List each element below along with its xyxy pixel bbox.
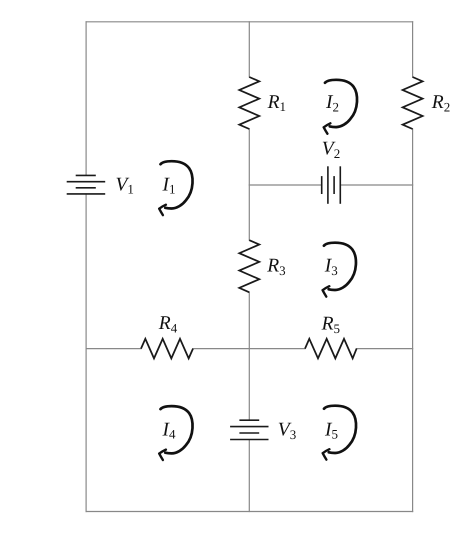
battery V1: [67, 175, 106, 194]
loop arrow I3: [323, 243, 356, 297]
wire middle below V3: [248, 440, 250, 512]
battery V3: [230, 420, 268, 439]
resistor R2: [403, 77, 423, 129]
wire V2 row left: [249, 184, 321, 186]
loop arrow I2: [324, 80, 357, 134]
resistor R5: [305, 339, 357, 359]
wire bottom: [86, 511, 413, 513]
resistor R3: [239, 240, 259, 292]
wire middle between R1 and R3: [248, 129, 250, 240]
loop arrow I5: [323, 406, 356, 460]
wire middle between R3 and V3: [248, 292, 250, 420]
wire top: [86, 21, 413, 23]
battery V2: [322, 166, 341, 204]
wire mid row right of R5: [357, 348, 413, 350]
wire left upper: [85, 22, 87, 176]
loop arrow I1: [159, 161, 192, 215]
resistor R1: [239, 77, 259, 129]
wire middle top: [248, 22, 250, 77]
wire left lower: [85, 194, 87, 512]
wire right lower: [412, 129, 414, 512]
loop arrow I4: [159, 406, 192, 460]
wire right upper: [412, 22, 414, 77]
wire V2 row right: [340, 184, 412, 186]
resistor R4: [141, 339, 193, 359]
wire mid row left of R4: [86, 348, 141, 350]
wire mid row between R4 and R5: [193, 348, 305, 350]
